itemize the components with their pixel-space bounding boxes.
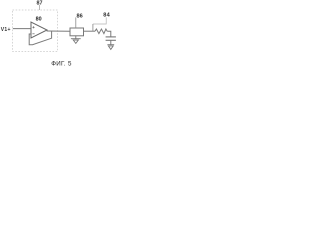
op-amp U1 triangle bbox=[31, 22, 47, 38]
dashed block boundary box around amplifier bbox=[13, 10, 58, 52]
output wire to block bbox=[47, 30, 70, 32]
wire resistor to capacitor corner bbox=[107, 31, 111, 36]
svg-text:V1+: V1+ bbox=[1, 27, 11, 33]
minus input mark bbox=[32, 33, 34, 35]
leader line for label 84 bbox=[93, 17, 106, 24]
svg-text:ФИГ. 5: ФИГ. 5 bbox=[51, 60, 72, 67]
top lead / label leader of block bbox=[75, 17, 77, 28]
block component (resonator) box bbox=[70, 28, 84, 36]
capacitor C plates bbox=[106, 37, 116, 40]
background bbox=[0, 0, 120, 71]
leader line for label 87 bbox=[39, 5, 41, 10]
svg-text:80: 80 bbox=[36, 16, 42, 22]
svg-text:86: 86 bbox=[76, 13, 82, 19]
resistor R zigzag bbox=[95, 29, 107, 34]
svg-text:84: 84 bbox=[103, 12, 110, 18]
feedback wire loop bbox=[29, 31, 51, 45]
wire capacitor to ground bbox=[110, 40, 112, 44]
plus input mark bbox=[32, 26, 34, 28]
svg-text:87: 87 bbox=[37, 1, 43, 7]
ground under block bbox=[71, 36, 81, 44]
ground right bbox=[107, 45, 114, 50]
wire block to resistor bbox=[84, 30, 96, 32]
wire input to op-amp bbox=[13, 28, 31, 30]
